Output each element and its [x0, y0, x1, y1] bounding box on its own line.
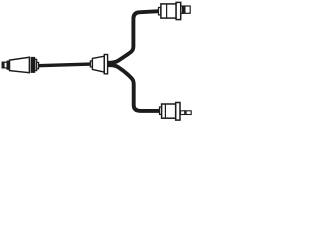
top RCA plug P1: body seam line [166, 4, 168, 18]
top RCA plug P1: collar ring [176, 2, 181, 19]
left RCA plug U1: tip barrel [2, 62, 7, 68]
left RCA plug U1: back cap [35, 59, 37, 70]
bottom RCA plug P2: tip barrel [181, 111, 192, 115]
bottom RCA plug P2: body seam line [164, 104, 166, 118]
top RCA plug P1: tip ring band [182, 6, 185, 13]
top RCA plug P1: body [161, 4, 176, 18]
bottom RCA plug P2: collar ring [176, 103, 180, 121]
left RCA plug U1: ribbed grip band [31, 57, 35, 72]
bottom RCA plug P2: neck [160, 107, 162, 114]
bottom RCA plug P2: body [162, 104, 176, 118]
splitter body J1: entry bushing [90, 61, 92, 67]
top RCA plug P1: neck [159, 8, 161, 15]
left RCA plug U1: strain step [37, 62, 39, 68]
left RCA plug U1: body shell [10, 57, 30, 72]
bottom RCA plug P2: tip ring band [185, 111, 187, 115]
left RCA plug U1: insulator ring [7, 61, 10, 69]
splitter body J1: bell housing [92, 56, 104, 72]
left RCA plug U1: dark tip cap [2, 62, 4, 68]
top RCA plug P1: tip barrel [181, 6, 190, 13]
wire: lower branch cable from splitter to bottom connector [108, 65, 160, 111]
wire: main cable from left plug to splitter [39, 64, 91, 66]
wire: upper branch cable from splitter to top connector [108, 11, 159, 63]
splitter body J1: flange [104, 55, 107, 74]
